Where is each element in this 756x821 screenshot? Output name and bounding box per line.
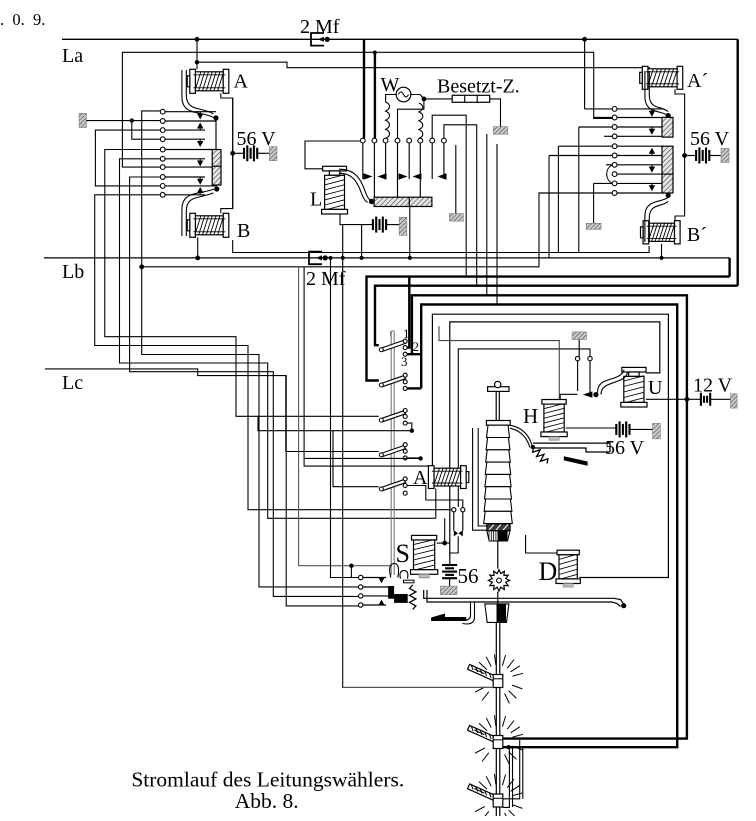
left bank contact circle 7 [160, 165, 165, 170]
wire second top link c7-c2p [122, 52, 612, 167]
wire G4c3 link [407, 457, 420, 460]
wire coil A right down [221, 93, 233, 153]
switch group 4 contact 3 [403, 456, 407, 460]
wire A2 flange feed [304, 458, 428, 466]
switch group 5 contact 3 [403, 491, 407, 495]
node 2Mf-line junction [139, 264, 144, 269]
S blade [431, 614, 466, 622]
switch group 3 contact 3 [403, 421, 407, 425]
left bank contact line 5 [165, 149, 212, 151]
right bank contact circle 7 [612, 162, 617, 167]
wire Bprime feed line [233, 240, 649, 253]
wire lamp left [386, 95, 397, 103]
node rod tip [621, 603, 626, 608]
wire c8 up-right [444, 125, 477, 286]
wire S c2 line [363, 586, 388, 588]
magnet frame wires [473, 428, 487, 530]
left bank contact circle 2 [160, 119, 165, 124]
wire c3-c9 link [95, 130, 160, 186]
wire wiper2 to boxA [503, 738, 687, 740]
wire Lc bus [45, 369, 361, 606]
wire H ground stem [578, 340, 580, 357]
relay coil B [187, 213, 229, 237]
right bank contact line 10 [617, 192, 664, 194]
center bank circle 7 [430, 138, 435, 143]
svg-text:2 Mf: 2 Mf [306, 268, 346, 290]
center bank circle 3 [383, 138, 388, 143]
zigzag spring H [533, 448, 548, 464]
wire c6 staircase [120, 159, 436, 519]
selector bar right seg1 [662, 117, 673, 137]
wire L top feed [305, 141, 361, 169]
wire G2c3 from boxB [407, 387, 421, 389]
node wiper2 junction [507, 745, 511, 749]
wire c5p down [557, 146, 559, 252]
node Lb stub2 junction [360, 256, 364, 260]
svg-text:Lb: Lb [62, 261, 84, 283]
S contact circle 4 [359, 603, 363, 607]
wire G5 lever feed [333, 431, 379, 487]
wire Lb stub 2 [361, 225, 363, 258]
wire G1c3 link [407, 353, 421, 355]
switch group 2 contact 2 [403, 380, 407, 384]
center arrow 6 [413, 173, 422, 179]
battery 56V right [685, 155, 697, 157]
box D inner [450, 322, 660, 565]
wire H bottom right [566, 427, 617, 429]
right bank arrow 7 [651, 165, 653, 167]
center arrow 3 [378, 173, 387, 179]
arrow H contact [583, 391, 593, 397]
selector bar center [374, 197, 432, 206]
wire c10 staircase [95, 195, 452, 510]
wire c5 staircase [105, 150, 379, 417]
center bank stem 1 [362, 143, 364, 179]
right bank left wire 7 [606, 164, 612, 166]
right bank arrow 9 [651, 183, 653, 185]
wire right riser 3 [486, 134, 488, 295]
right bank contact circle 3 [612, 125, 617, 130]
wire resistor to ground [490, 99, 501, 127]
right bank contact circle 5 [612, 144, 617, 149]
right bank left wire 3 [579, 126, 613, 128]
box B outer [421, 305, 677, 748]
wire La to coil A [196, 39, 198, 69]
svg-text:Stromlauf des Leitungswählers.: Stromlauf des Leitungswählers. [131, 768, 404, 792]
node Bprime Lb junction [660, 256, 664, 260]
right bank left wire 2 [594, 117, 613, 119]
wire G4c3 feed [304, 267, 421, 459]
wire bank right vertical [232, 98, 234, 209]
wire c2-c4 link [132, 121, 161, 140]
svg-text:La: La [62, 45, 83, 67]
ground 12V [731, 394, 738, 408]
wire to H top [439, 326, 559, 399]
wire S c1 feed [331, 258, 359, 578]
bowtie circle 1 [452, 508, 456, 512]
node Bprime yoke contact [666, 193, 671, 198]
H lever bar [533, 442, 610, 444]
svg-text:56 V: 56 V [605, 437, 645, 459]
ground top-left [79, 113, 86, 127]
relay coil S [411, 535, 438, 577]
svg-text:56 V: 56 V [690, 128, 730, 150]
svg-text:H: H [523, 404, 538, 428]
yoke Aprime [645, 71, 668, 115]
battery 56V left [233, 152, 244, 154]
center bank stem 2 [373, 143, 375, 197]
center arrow 8 [438, 173, 447, 179]
ground 56V mid [653, 423, 661, 438]
ground right bank [586, 223, 601, 229]
right bank contact line 6 [617, 155, 664, 157]
left bank contact line 2 [165, 120, 216, 122]
right bank arrow 4 [651, 127, 653, 129]
box E inner [458, 349, 590, 507]
bowtie contact [454, 530, 458, 536]
actuating rod [390, 331, 392, 575]
battery under L [372, 219, 374, 230]
right bank contact line 3 [617, 126, 664, 128]
right bank left wire 6 [549, 155, 612, 157]
left bank arrow 3 [199, 128, 201, 130]
wire Bprime right up [675, 156, 685, 221]
wire 2Mf link line [142, 111, 613, 267]
wavy lamp left lead [386, 102, 390, 138]
wire center riser gnd [455, 145, 457, 214]
S armature block [388, 586, 394, 599]
wavy lamp right lead [419, 103, 423, 138]
svg-text:Lc: Lc [62, 372, 83, 394]
wire link2 trunk to c2 [374, 52, 376, 138]
wire S c3 line [363, 595, 388, 597]
left bank contact line 10 [165, 194, 205, 196]
wire D top stub [526, 535, 557, 553]
wire ground to c2 [86, 120, 160, 122]
center bank stem 6 [419, 143, 421, 197]
wire H top up [560, 394, 577, 399]
left bank contact line 1 [165, 111, 216, 113]
left bank contact line 7 [165, 166, 212, 168]
svg-text:56 V: 56 V [237, 128, 277, 150]
node B-Lb junction [195, 256, 200, 261]
wire S c1 line [363, 577, 386, 579]
right bank contact circle 9 [612, 181, 617, 186]
wire Lb bus [44, 257, 730, 259]
right bank contact line 8 [617, 173, 664, 175]
right bank contact circle 6 [612, 153, 617, 158]
node La-A junction [195, 37, 200, 42]
right bank arrow 1 [651, 109, 653, 111]
svg-text:Abb. 8.: Abb. 8. [235, 789, 299, 813]
yoke Bprime [645, 198, 668, 242]
svg-text:2 Mf: 2 Mf [300, 16, 340, 38]
disc stack [487, 425, 510, 437]
wire S c4 line [363, 604, 386, 606]
right bank contact line 2 [617, 117, 664, 119]
wiper 2 [468, 715, 524, 764]
node La-right junction [582, 37, 587, 42]
node A yoke contact [213, 115, 218, 120]
svg-text:L: L [310, 189, 322, 211]
wire coil B bottom to Lb [197, 237, 199, 258]
node Lb stub1 junction [341, 256, 345, 260]
battery 12V [700, 393, 702, 406]
node A2-S junction [442, 541, 447, 546]
right bank left wire 9 [594, 182, 613, 184]
lamp W circle [396, 87, 411, 102]
box A outer [412, 295, 687, 738]
switch group 4 contact 2 [403, 449, 407, 453]
S hook 2 [400, 571, 408, 579]
wire shaft down to star [497, 541, 499, 569]
right bank contact circle 8 [612, 172, 617, 177]
node G4c3 junction [418, 456, 422, 460]
svg-text:U: U [648, 377, 663, 399]
armature flange [486, 421, 510, 426]
svg-text:12 V: 12 V [693, 375, 733, 397]
relay coil B-prime [641, 221, 681, 244]
wire bar down to Lb [409, 207, 411, 258]
wire c4 up link [398, 99, 424, 138]
node bar left contact [369, 199, 374, 204]
capacitor C2 2Mf on Lb [309, 252, 322, 265]
center bank circle 8 [442, 138, 447, 143]
left bank contact circle 3 [160, 128, 165, 133]
center bank stem 3 [385, 143, 387, 179]
node H lever pivot [531, 445, 535, 449]
selector bar left [212, 150, 221, 186]
S zigzag spring [410, 585, 416, 610]
switch group 2 lever [379, 376, 405, 387]
rod pawl [463, 602, 471, 620]
box C inner [432, 314, 668, 577]
center bank circle 5 [407, 138, 412, 143]
wire gray branch [350, 566, 352, 578]
ground L battery [399, 217, 407, 235]
switch group 4 lever [379, 446, 405, 457]
right bank left wire 1 [585, 108, 613, 110]
switch group 2 contact 3 [403, 386, 407, 390]
S contact circle 3 [359, 594, 363, 598]
node S c1 Lb junction [329, 256, 333, 260]
switch group 2 contact 1 [403, 373, 407, 377]
bowtie stems [453, 512, 455, 531]
switch group 3 lever [379, 411, 405, 422]
node battery left junction [230, 151, 235, 156]
node La-cap junction [325, 37, 330, 42]
yoke coil A curve [182, 70, 214, 118]
left bank arrow 10 [199, 193, 201, 195]
svg-text:S: S [396, 539, 410, 568]
right bank contact line 5 [617, 145, 664, 147]
node B yoke contact [214, 186, 219, 191]
wire wiper3 links [503, 740, 520, 799]
S hook 1 [390, 564, 399, 578]
left bank contact line 6 [165, 158, 205, 160]
right bank contact circle 2 [612, 115, 617, 120]
switch group 3 contact 2 [403, 415, 407, 419]
switch group 3 contact 1 [403, 409, 407, 413]
right bank contact line 9 [617, 182, 664, 184]
bucket 2 [485, 604, 509, 623]
left bank contact circle 5 [160, 147, 165, 152]
wire S top to dot [437, 542, 445, 544]
ground right battery [721, 148, 729, 162]
left bank contact line 3 [165, 129, 205, 131]
wire bowtie down [450, 536, 458, 553]
wire La bus [62, 38, 738, 40]
wire Bprime bottom to Lb [661, 244, 663, 258]
wire La trunk to c1 [363, 39, 365, 138]
svg-text:Besetzt-Z.: Besetzt-Z. [437, 76, 520, 98]
S arrow down [379, 578, 385, 584]
wire c9p ground stem [593, 183, 595, 223]
relay coil D [556, 550, 580, 587]
wire c7 up-right [432, 115, 466, 276]
center bank stem 8 [443, 143, 445, 179]
switch group 5 contact 2 [403, 484, 407, 488]
left bank contact circle 8 [160, 175, 165, 180]
wire wiper1 tap [343, 686, 494, 688]
wire lamp right [411, 95, 424, 99]
left bank arrow 6 [199, 159, 201, 161]
stack bucket [487, 531, 510, 541]
wire Aprime right down [675, 89, 685, 155]
resistor Besetzt-Z [424, 98, 452, 100]
node U curve contact [593, 392, 598, 397]
wire La to c1prime [584, 39, 586, 109]
wire H1 stem [577, 361, 579, 391]
switch group 5 contact 1 [403, 477, 407, 481]
center bank circle 4 [395, 138, 400, 143]
S arrow up [379, 600, 385, 605]
left bank contact circle 1 [160, 109, 165, 114]
switch group 1 lever [379, 340, 405, 351]
wiper 1 [468, 654, 524, 703]
node S gray junction [349, 564, 353, 568]
node U-boxA junction [685, 397, 690, 402]
left bank contact line 9 [165, 185, 217, 187]
left bank contact circle 10 [160, 192, 165, 197]
center bank circle 1 [360, 138, 365, 143]
switch group 1 contact 2 [403, 346, 407, 350]
wire G4 lever feed [286, 376, 379, 452]
center bank stem 7 [431, 143, 433, 179]
svg-text:2: 2 [413, 339, 420, 354]
center bank stem 5 [408, 143, 410, 179]
svg-text:B: B [237, 220, 250, 242]
switch group 1 contact 1 [403, 339, 407, 343]
svg-text:D: D [539, 557, 558, 586]
selector bar right seg2 [662, 146, 673, 193]
selector shaft [495, 622, 497, 816]
scurve to U [598, 370, 625, 393]
left bank arrow 1 [199, 112, 201, 114]
right bank contact circle 4 [612, 134, 617, 139]
center bank circle 6 [418, 138, 423, 143]
switch group 1 contact 3 [403, 352, 407, 356]
center bank stem 4 [397, 143, 399, 197]
ground Besetzt [493, 127, 508, 135]
node A feed junction [195, 60, 199, 64]
wire return loop La-G1 [375, 286, 738, 346]
wire H2 stem [589, 361, 591, 395]
gray wire to S armature [299, 267, 392, 566]
relay coil U [621, 367, 647, 407]
wire Lb stub 1 [342, 225, 344, 258]
battery 56V mid [615, 424, 617, 435]
S contact circle 2 [359, 585, 363, 589]
svg-text:W: W [381, 74, 400, 96]
wire wiper2 to boxB [503, 746, 677, 748]
node right battery junction [682, 153, 687, 158]
node ground wire junction [130, 118, 134, 122]
left bank contact line 4 [165, 138, 205, 140]
relay coil A2 [428, 466, 468, 489]
svg-text:A: A [234, 71, 249, 93]
svg-text:A´: A´ [687, 70, 708, 92]
wire A feed to A-prime [197, 62, 649, 73]
right bank left wire 5 [558, 145, 612, 147]
svg-text:56: 56 [458, 564, 479, 588]
svg-text:. 0. 9.: . 0. 9. [0, 10, 45, 29]
H lever blade [564, 456, 588, 466]
node G3c3 junction [410, 429, 414, 433]
node lamp-resistor junction [422, 97, 427, 102]
center bank circle 2 [372, 138, 377, 143]
S contact circle 1 [359, 575, 363, 579]
contact circle H2 [588, 356, 592, 360]
wire coil B right up [221, 153, 233, 213]
star wheel [488, 570, 509, 591]
switch group 4 contact 1 [403, 443, 407, 447]
node Aprime yoke contact [666, 113, 671, 118]
center arrow 1 [364, 173, 373, 179]
ground S battery [440, 586, 457, 595]
node bar-Lb junction [408, 256, 412, 260]
right bank arrow 6 [651, 153, 653, 155]
node link2 top junction [373, 51, 377, 55]
ground H area [572, 332, 586, 340]
wire long x342 down [342, 258, 344, 416]
left bank arrow 4 [199, 139, 201, 141]
wiper 3 [468, 774, 524, 821]
wire G3c3 dot link [258, 416, 412, 430]
capacitor C1 2Mf on La [311, 33, 324, 46]
center arrow 4 [399, 173, 408, 179]
wire c3p down [578, 127, 580, 253]
wire L bottom to battery [340, 214, 373, 225]
svg-text:B´: B´ [687, 224, 707, 246]
wire A2 to S dot [445, 518, 450, 543]
right bank left wire 10 [539, 192, 612, 194]
wire G1c2 riser [407, 277, 409, 348]
wire c8 staircase [130, 177, 361, 596]
wire A2 coil bottom [435, 489, 437, 519]
switch group 5 lever [379, 480, 405, 491]
contact circle H1 [575, 356, 579, 360]
relay coil L [322, 166, 348, 214]
wire return loop Lb-G2 [367, 277, 730, 381]
left bank contact circle 6 [160, 156, 165, 161]
S contact plates [404, 580, 415, 583]
right bank contact line 1 [617, 108, 664, 110]
bowtie circle 2 [461, 508, 465, 512]
left bank contact circle 4 [160, 137, 165, 142]
right bank left wire 4 [604, 135, 612, 137]
relay coil A [187, 69, 229, 93]
